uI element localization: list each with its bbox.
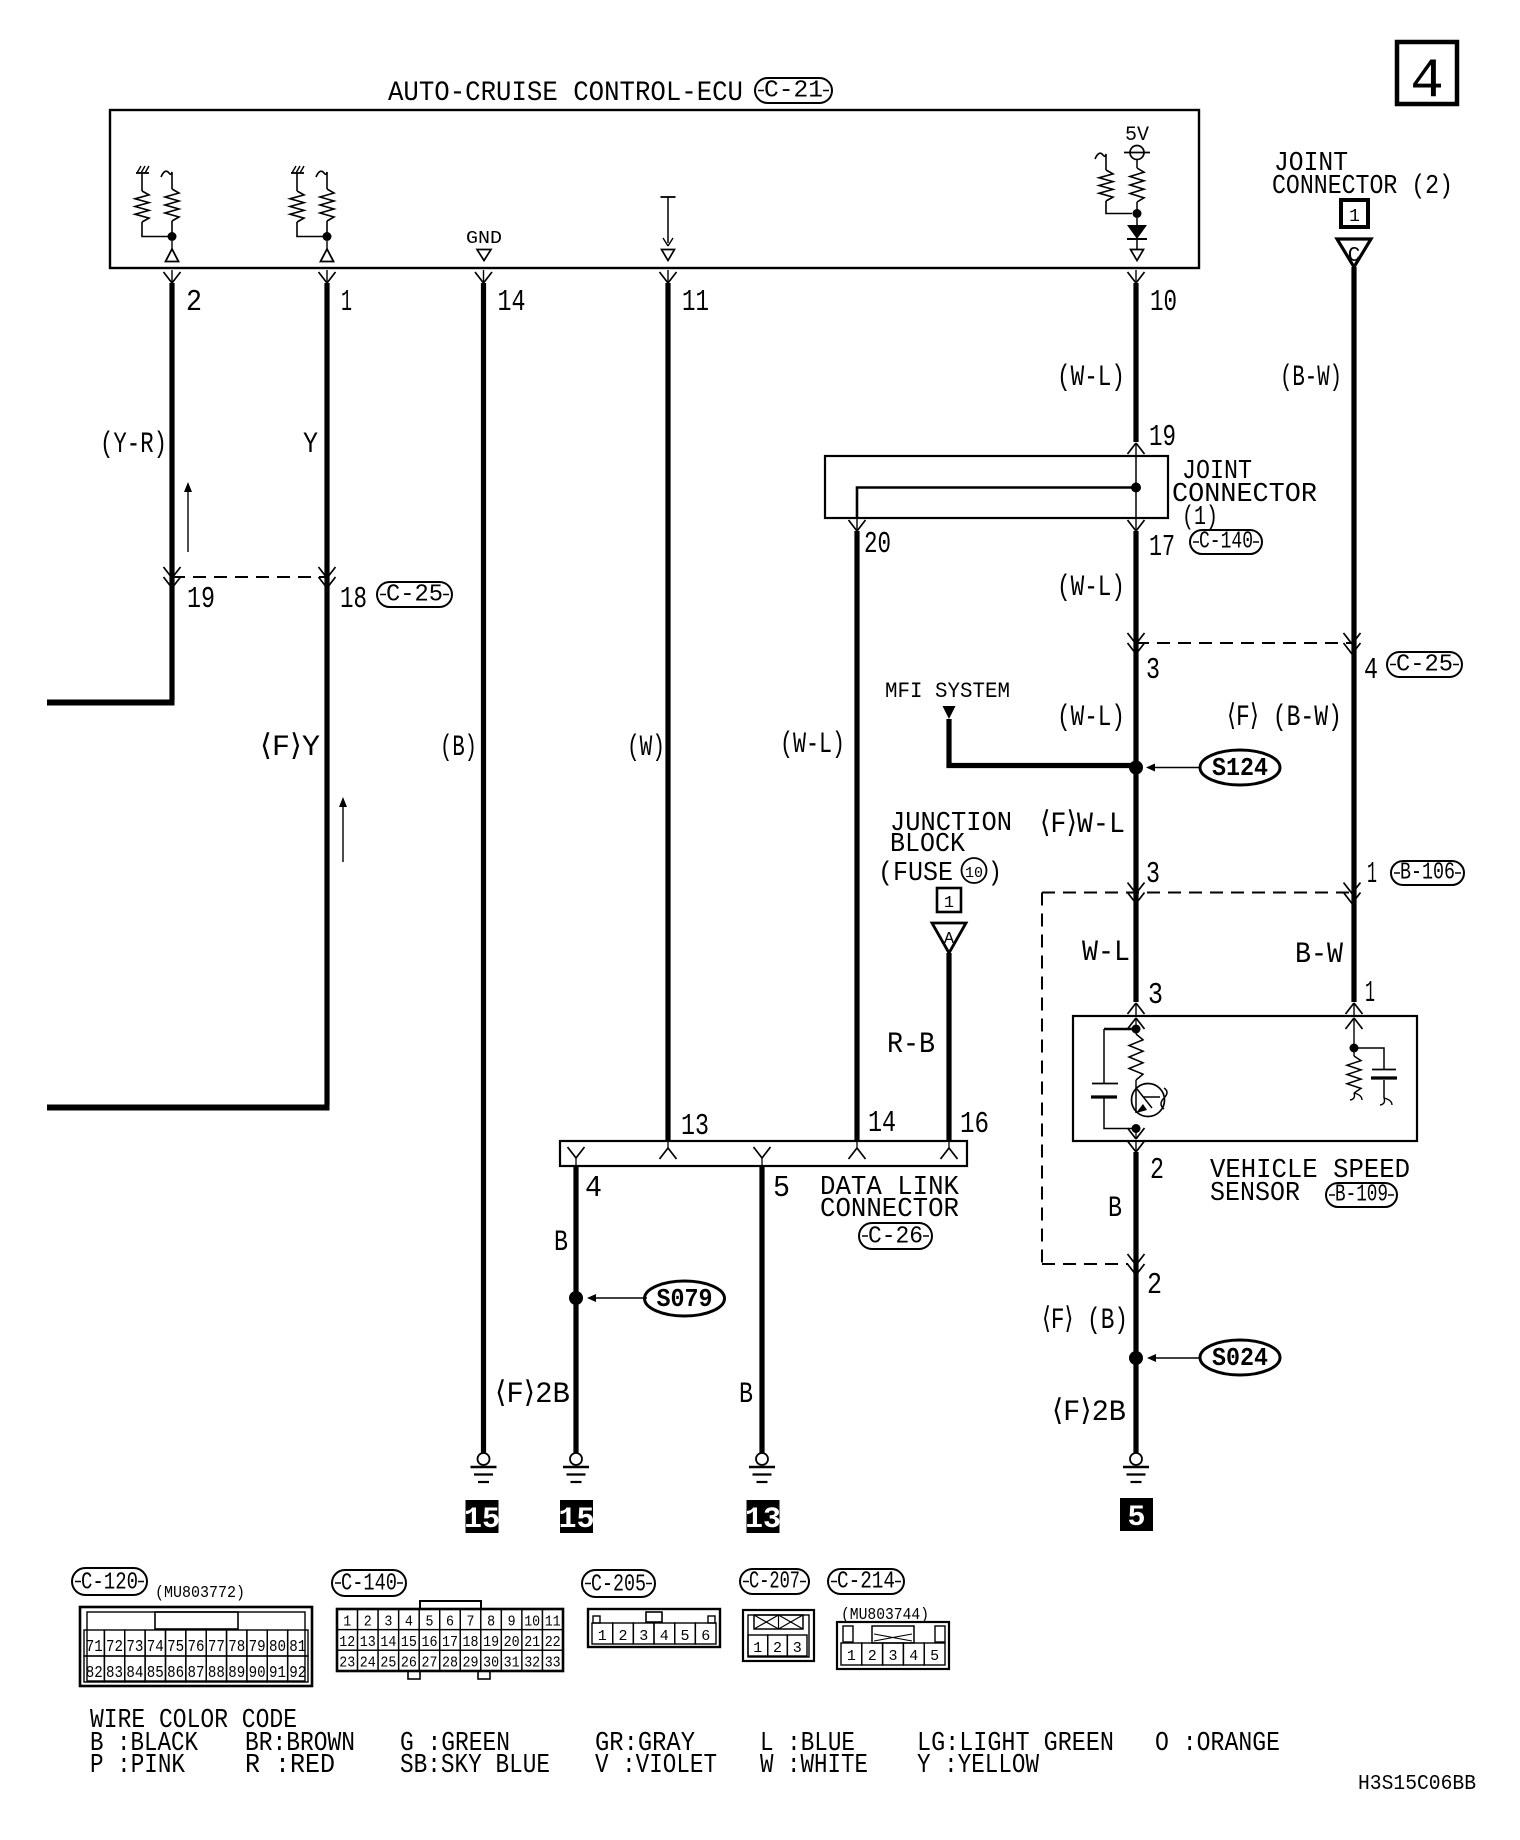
connector label B-106 bbox=[1391, 860, 1464, 887]
svg-text:GND: GND bbox=[466, 229, 502, 249]
svg-text:(W): (W) bbox=[627, 731, 665, 765]
DLC terminal fork pin 13 bbox=[660, 1141, 677, 1159]
joint connector (1) internal wire pin19-pin17 bbox=[1135, 456, 1137, 518]
connector label C-21 bbox=[755, 78, 832, 105]
terminal fork pin 19 into joint connector (1) bbox=[1128, 443, 1145, 456]
connector label C-214 bbox=[828, 1569, 904, 1596]
ECU pin 14 terminal fork bbox=[475, 270, 492, 283]
connector label C-207 bbox=[740, 1569, 809, 1596]
junction dot above diode at pin 10 bbox=[1133, 209, 1142, 218]
svg-text:86: 86 bbox=[167, 1664, 184, 1683]
resistor pair in ECU above pin 1 (left resistor with hatch) bbox=[290, 166, 323, 237]
svg-text:(FUSE: (FUSE bbox=[878, 859, 953, 889]
svg-text:): ) bbox=[988, 859, 1002, 889]
svg-text:Y :YELLOW: Y :YELLOW bbox=[917, 1751, 1040, 1781]
svg-text:3: 3 bbox=[888, 1648, 897, 1665]
svg-text:10: 10 bbox=[965, 865, 983, 882]
sensor internal transistor (speed pickup) bbox=[1132, 1084, 1168, 1117]
svg-text:(W-L): (W-L) bbox=[780, 728, 845, 762]
svg-text:32: 32 bbox=[524, 1655, 540, 1672]
junction block pin box 1 bbox=[937, 888, 961, 913]
DLC terminal fork pin 14 bbox=[849, 1141, 866, 1159]
svg-text:72: 72 bbox=[106, 1638, 123, 1657]
wire W-L from joint connector (1) pin 17 down to vehicle speed sensor bbox=[1133, 531, 1138, 1002]
wire (W-L) from ECU pin 10 to joint connector (1) pin 19 bbox=[1133, 283, 1138, 442]
svg-text:15: 15 bbox=[401, 1634, 417, 1651]
svg-text:(B-W): (B-W) bbox=[1280, 361, 1342, 395]
5V supply symbol inside ECU at pin 10 bbox=[1124, 124, 1150, 160]
svg-text:18: 18 bbox=[340, 582, 367, 617]
JOINT CONNECTOR (2) triangle C bbox=[1337, 239, 1371, 268]
svg-text:17: 17 bbox=[1149, 530, 1175, 565]
double chevron at pin 18 (C-25) bbox=[319, 567, 328, 578]
svg-text:1: 1 bbox=[753, 1640, 762, 1657]
svg-text:77: 77 bbox=[208, 1638, 225, 1657]
svg-text:28: 28 bbox=[442, 1655, 458, 1672]
svg-text:1: 1 bbox=[1349, 207, 1360, 227]
svg-text:1: 1 bbox=[1367, 857, 1377, 892]
JOINT CONNECTOR (2) label bbox=[1272, 149, 1453, 202]
svg-text:C-25: C-25 bbox=[1396, 652, 1453, 679]
svg-text:B-W: B-W bbox=[1295, 938, 1343, 972]
svg-text:C-26: C-26 bbox=[868, 1224, 923, 1251]
svg-text:C-120: C-120 bbox=[81, 1570, 138, 1597]
svg-text:30: 30 bbox=[483, 1655, 499, 1672]
svg-text:83: 83 bbox=[106, 1664, 123, 1683]
svg-text:19: 19 bbox=[1149, 420, 1176, 455]
svg-text:R-B: R-B bbox=[887, 1028, 935, 1062]
svg-text:85: 85 bbox=[147, 1664, 164, 1683]
JOINT CONNECTOR (1) label bbox=[1172, 457, 1317, 533]
sensor internal fork pin 3 bbox=[1128, 1018, 1145, 1029]
ECU pin 10 terminal fork bbox=[1128, 270, 1145, 283]
svg-text:(W-L): (W-L) bbox=[1057, 571, 1125, 605]
svg-text:1: 1 bbox=[847, 1648, 856, 1665]
svg-text:B: B bbox=[739, 1378, 753, 1412]
svg-text:7: 7 bbox=[467, 1614, 475, 1631]
svg-text:26: 26 bbox=[401, 1655, 417, 1672]
svg-text:25: 25 bbox=[380, 1655, 396, 1672]
svg-text:Y: Y bbox=[303, 428, 318, 462]
svg-text:13: 13 bbox=[681, 1109, 709, 1144]
connector C-214 face drawing bbox=[837, 1622, 949, 1669]
DATA LINK CONNECTOR box C-26 bbox=[560, 1141, 967, 1166]
svg-text:V :VIOLET: V :VIOLET bbox=[595, 1751, 717, 1781]
svg-text:15: 15 bbox=[558, 1503, 594, 1537]
svg-text:CONNECTOR (2): CONNECTOR (2) bbox=[1272, 172, 1453, 202]
svg-text:11: 11 bbox=[545, 1614, 561, 1631]
ground reference box 15 (left) bbox=[466, 1500, 499, 1533]
resistor (right) under 5V supply bbox=[1130, 160, 1144, 212]
svg-text:S124: S124 bbox=[1212, 753, 1268, 783]
svg-text:15: 15 bbox=[464, 1503, 500, 1537]
VEHICLE SPEED SENSOR label bbox=[1210, 1156, 1410, 1209]
svg-text:33: 33 bbox=[545, 1655, 561, 1672]
svg-text:24: 24 bbox=[360, 1655, 376, 1672]
connector label C-25 (left) bbox=[377, 582, 452, 609]
flow arrow on (Y-R) wire bbox=[187, 486, 189, 552]
svg-text:(Y-R): (Y-R) bbox=[100, 428, 167, 462]
internal output symbol at ECU pin 11 (T-bar with down arrow) bbox=[661, 197, 676, 261]
splice callout S079 bbox=[587, 1281, 725, 1316]
svg-text:73: 73 bbox=[126, 1638, 143, 1657]
svg-text:2: 2 bbox=[1150, 1153, 1164, 1188]
svg-text:5: 5 bbox=[1127, 1501, 1145, 1535]
harness break dashed line C-25 (pins 3/4) bbox=[1136, 642, 1352, 644]
svg-text:18: 18 bbox=[463, 1634, 479, 1651]
internal terminal triangle at pin 2 bbox=[166, 241, 179, 262]
ground symbol (DLC pin 4) bbox=[570, 1453, 582, 1465]
DLC terminal fork pin 4 bbox=[568, 1147, 585, 1166]
svg-text:10: 10 bbox=[1150, 285, 1177, 320]
DATA LINK CONNECTOR label bbox=[820, 1173, 960, 1225]
svg-text:⟨F⟩2B: ⟨F⟩2B bbox=[495, 1378, 570, 1412]
svg-text:6: 6 bbox=[701, 1628, 710, 1645]
svg-text:75: 75 bbox=[167, 1638, 184, 1657]
DLC terminal fork pin 5 bbox=[754, 1147, 771, 1166]
connector label B-109 bbox=[1326, 1182, 1397, 1209]
double chevron at pin 4 (C-25) bbox=[1344, 633, 1353, 644]
svg-text:⟨F⟩W-L: ⟨F⟩W-L bbox=[1040, 808, 1125, 842]
svg-text:(MU803772): (MU803772) bbox=[155, 1584, 245, 1603]
svg-text:2: 2 bbox=[618, 1628, 627, 1645]
svg-text:9: 9 bbox=[508, 1614, 516, 1631]
svg-text:4: 4 bbox=[1364, 653, 1378, 688]
splice S124 junction dot bbox=[1129, 761, 1143, 775]
svg-text:89: 89 bbox=[228, 1664, 245, 1683]
resistor pair in ECU above pin 1 (right resistor with curl top) bbox=[316, 171, 334, 233]
wire (Y-R) from ECU pin 2 down and left off-page bbox=[169, 283, 174, 700]
connector label C-140 bbox=[1190, 529, 1262, 556]
sensor internal fork pin 2 (exit) bbox=[1128, 1128, 1145, 1139]
svg-text:19: 19 bbox=[483, 1634, 499, 1651]
svg-text:23: 23 bbox=[339, 1655, 355, 1672]
ECU pin 1 terminal fork bbox=[319, 270, 336, 283]
svg-text:79: 79 bbox=[249, 1638, 266, 1657]
connector C-140 face drawing bbox=[337, 1601, 563, 1679]
JOINT CONNECTOR (2) pin box 1 bbox=[1341, 200, 1368, 227]
harness break dashed line C-25 (pins 19/18) bbox=[172, 576, 327, 578]
page number marker 4 (top right) bbox=[1397, 42, 1457, 113]
svg-text:C-207: C-207 bbox=[749, 1569, 800, 1596]
svg-text:22: 22 bbox=[545, 1634, 561, 1651]
svg-text:1: 1 bbox=[341, 285, 352, 320]
svg-text:5V: 5V bbox=[1125, 124, 1149, 147]
svg-text:71: 71 bbox=[86, 1638, 103, 1657]
svg-text:(W-L): (W-L) bbox=[1057, 701, 1125, 735]
svg-text:⟨F⟩2B: ⟨F⟩2B bbox=[1052, 1396, 1126, 1430]
svg-text:C-21: C-21 bbox=[764, 78, 823, 105]
svg-text:⟨F⟩ (B): ⟨F⟩ (B) bbox=[1042, 1304, 1128, 1338]
dashed harness enclosure around vehicle speed sensor wires bbox=[1042, 893, 1128, 1265]
wire (B-W) from joint connector (2) down to vehicle speed sensor bbox=[1351, 267, 1356, 1002]
resistor pair in ECU above pin 2 (right resistor with curl top) bbox=[161, 171, 179, 233]
svg-text:81: 81 bbox=[289, 1638, 306, 1657]
connector C-207 face drawing bbox=[743, 1610, 814, 1661]
resistor (left, with curl top) beside 5V supply bbox=[1095, 153, 1132, 213]
connector label C-205 bbox=[582, 1570, 655, 1599]
svg-text:R :RED: R :RED bbox=[245, 1751, 335, 1781]
svg-text:W-L: W-L bbox=[1082, 936, 1130, 970]
svg-text:4: 4 bbox=[585, 1171, 602, 1206]
svg-text:C-25: C-25 bbox=[386, 582, 443, 609]
double chevron at pin 3 (B-106) bbox=[1128, 883, 1137, 894]
double chevron at pin 19 (C-25) bbox=[164, 567, 173, 578]
connector C-205 face drawing bbox=[588, 1609, 720, 1647]
sensor internal capacitor (right) bbox=[1356, 1048, 1397, 1105]
svg-text:80: 80 bbox=[269, 1638, 286, 1657]
wire Y from ECU pin 1 down and left off-page bbox=[324, 283, 329, 1105]
wire B from sensor pin 2 to B-106 break bbox=[1133, 1152, 1138, 1453]
sensor internal capacitor (left) bbox=[1091, 1029, 1134, 1129]
internal terminal triangle (GND) at pin 14 bbox=[477, 250, 491, 261]
svg-text:1: 1 bbox=[944, 894, 954, 913]
svg-text:(W-L): (W-L) bbox=[1057, 361, 1125, 395]
svg-text:87: 87 bbox=[188, 1664, 205, 1683]
svg-text:B-109: B-109 bbox=[1335, 1182, 1388, 1209]
svg-text:C-214: C-214 bbox=[837, 1569, 895, 1596]
svg-text:90: 90 bbox=[249, 1664, 266, 1683]
svg-text:10: 10 bbox=[524, 1614, 540, 1631]
connector C-120 face drawing bbox=[80, 1607, 312, 1686]
svg-text:2: 2 bbox=[1147, 1268, 1162, 1303]
ECU pin 11 terminal fork bbox=[660, 270, 677, 283]
flow arrow on Y wire bbox=[342, 801, 344, 862]
svg-text:74: 74 bbox=[147, 1638, 164, 1657]
sensor internal resistor bbox=[1129, 1029, 1143, 1084]
svg-text:W :WHITE: W :WHITE bbox=[760, 1751, 868, 1781]
ground reference box 15 (center) bbox=[560, 1500, 593, 1533]
wire (W) from ECU pin 11 to data link connector pin 13 bbox=[665, 283, 670, 1141]
svg-text:78: 78 bbox=[228, 1638, 245, 1657]
svg-text:B: B bbox=[1108, 1192, 1122, 1226]
sensor internal fork pin 1 bbox=[1346, 1018, 1363, 1048]
svg-text:SB:SKY BLUE: SB:SKY BLUE bbox=[400, 1751, 550, 1781]
svg-text:C-205: C-205 bbox=[591, 1572, 646, 1599]
svg-text:8: 8 bbox=[487, 1614, 495, 1631]
svg-text:CONNECTOR: CONNECTOR bbox=[820, 1195, 959, 1225]
ground symbol (DLC pin 5) bbox=[756, 1453, 768, 1465]
zener diode to ECU pin 10 bbox=[1127, 218, 1147, 261]
sensor internal junction dot pin 2 bbox=[1132, 1124, 1141, 1133]
double chevron at pin 2 (harness enclosure exit) bbox=[1128, 1254, 1137, 1265]
wire B from DLC pin 5 to ground bbox=[759, 1166, 764, 1453]
terminal fork pin 17 below joint connector (1) bbox=[1128, 518, 1145, 531]
svg-text:5: 5 bbox=[773, 1171, 790, 1206]
svg-text:3: 3 bbox=[1146, 653, 1160, 688]
terminal fork pin 1 into vehicle speed sensor bbox=[1346, 1003, 1363, 1016]
svg-text:1: 1 bbox=[343, 1614, 351, 1631]
wire (W-L) from joint connector (1) pin 20 to data link connector pin 14 bbox=[854, 531, 859, 1141]
svg-text:⟨F⟩Y: ⟨F⟩Y bbox=[260, 731, 320, 765]
splice callout S024 bbox=[1147, 1340, 1280, 1375]
svg-text:S079: S079 bbox=[657, 1284, 713, 1314]
svg-text:3: 3 bbox=[384, 1614, 392, 1631]
svg-text:C-140: C-140 bbox=[341, 1571, 397, 1598]
svg-text:S024: S024 bbox=[1212, 1343, 1268, 1373]
internal terminal triangle at pin 1 bbox=[321, 241, 334, 262]
wire R-B from junction block to data link connector pin 16 bbox=[946, 953, 951, 1141]
svg-text:2: 2 bbox=[868, 1648, 877, 1665]
svg-text:SENSOR: SENSOR bbox=[1210, 1179, 1300, 1209]
terminal fork pin 2 below vehicle speed sensor bbox=[1128, 1141, 1145, 1152]
svg-text:3: 3 bbox=[1148, 978, 1163, 1013]
ground reference box 5 bbox=[1120, 1498, 1153, 1531]
ECU pin 2 terminal fork bbox=[164, 270, 181, 283]
connector label C-140 (bottom) bbox=[332, 1570, 406, 1598]
svg-text:P :PINK: P :PINK bbox=[90, 1751, 186, 1781]
svg-text:19: 19 bbox=[187, 582, 215, 617]
svg-text:14: 14 bbox=[380, 1634, 396, 1651]
sensor internal junction dot pin 3 bbox=[1132, 1025, 1141, 1034]
svg-text:4: 4 bbox=[1410, 49, 1444, 113]
joint connector (1) bus junction dot bbox=[1131, 483, 1141, 493]
double chevron at pin 3 (C-25) bbox=[1128, 633, 1137, 644]
wire (B) from ECU pin 14 to ground bbox=[481, 283, 486, 1453]
svg-text:20: 20 bbox=[864, 527, 891, 562]
wire color code legend bbox=[90, 1706, 1280, 1781]
svg-text:4: 4 bbox=[660, 1628, 669, 1645]
svg-text:4: 4 bbox=[405, 1614, 413, 1631]
svg-text:16: 16 bbox=[422, 1634, 438, 1651]
svg-text:88: 88 bbox=[208, 1664, 225, 1683]
ground reference box 13 bbox=[747, 1500, 780, 1533]
svg-text:1: 1 bbox=[1365, 976, 1375, 1011]
wire B from DLC pin 4 to ground bbox=[573, 1166, 578, 1453]
svg-text:(B): (B) bbox=[440, 731, 477, 765]
svg-text:B: B bbox=[554, 1226, 568, 1260]
ECU box outline C-21 bbox=[110, 110, 1199, 268]
svg-text:31: 31 bbox=[504, 1655, 520, 1672]
svg-text:5: 5 bbox=[930, 1648, 939, 1665]
junction dot above pin 2 bbox=[168, 232, 177, 241]
svg-text:20: 20 bbox=[504, 1634, 520, 1651]
svg-text:B-106: B-106 bbox=[1400, 860, 1455, 887]
svg-text:84: 84 bbox=[126, 1664, 143, 1683]
splice S024 junction dot bbox=[1129, 1351, 1143, 1365]
svg-text:14: 14 bbox=[868, 1106, 896, 1141]
svg-text:12: 12 bbox=[339, 1634, 355, 1651]
sensor internal junction dot pin 1 bbox=[1350, 1044, 1359, 1053]
svg-text:2: 2 bbox=[773, 1640, 782, 1657]
svg-text:3: 3 bbox=[639, 1628, 648, 1645]
svg-text:76: 76 bbox=[188, 1638, 205, 1657]
connector label C-25 (right) bbox=[1387, 652, 1462, 679]
joint connector (1) internal bus bbox=[857, 488, 1134, 519]
svg-text:3: 3 bbox=[1146, 857, 1160, 892]
svg-text:1: 1 bbox=[598, 1628, 607, 1645]
junction dot above pin 1 bbox=[323, 232, 332, 241]
splice S079 junction dot bbox=[569, 1291, 583, 1305]
svg-text:⟨F⟩ (B-W): ⟨F⟩ (B-W) bbox=[1227, 701, 1342, 735]
svg-text:5: 5 bbox=[680, 1628, 689, 1645]
double chevron at pin 1 (B-106) bbox=[1344, 883, 1353, 894]
svg-text:A: A bbox=[944, 930, 955, 949]
VEHICLE SPEED SENSOR box B-109 bbox=[1073, 1016, 1417, 1141]
sensor internal resistor (right) bbox=[1347, 1048, 1362, 1100]
svg-text:29: 29 bbox=[463, 1655, 479, 1672]
DLC terminal fork pin 16 bbox=[941, 1141, 958, 1159]
svg-text:16: 16 bbox=[960, 1107, 989, 1142]
svg-text:4: 4 bbox=[909, 1648, 918, 1665]
svg-text:82: 82 bbox=[86, 1664, 103, 1683]
svg-text:13: 13 bbox=[745, 1503, 781, 1537]
svg-text:C: C bbox=[1348, 245, 1361, 268]
svg-text:2: 2 bbox=[364, 1614, 372, 1631]
wire from MFI SYSTEM to S124 splice bbox=[949, 719, 1134, 766]
svg-text:H3S15C06BB: H3S15C06BB bbox=[1358, 1773, 1476, 1796]
svg-text:6: 6 bbox=[446, 1614, 454, 1631]
JOINT CONNECTOR (1) box bbox=[825, 456, 1168, 518]
svg-text:11: 11 bbox=[682, 285, 709, 320]
svg-text:14: 14 bbox=[498, 285, 526, 320]
svg-text:2: 2 bbox=[186, 285, 202, 320]
svg-text:91: 91 bbox=[269, 1664, 286, 1683]
svg-text:BLOCK: BLOCK bbox=[890, 830, 966, 860]
harness break dashed line B-106 bbox=[1042, 892, 1352, 894]
terminal fork pin 20 below joint connector (1) bbox=[849, 518, 866, 531]
svg-text:17: 17 bbox=[442, 1634, 458, 1651]
resistor pair in ECU above pin 2 (left resistor with hatch) bbox=[135, 166, 168, 237]
junction block triangle A (fuse feed) bbox=[932, 923, 966, 953]
svg-text:5: 5 bbox=[426, 1614, 434, 1631]
svg-text:O :ORANGE: O :ORANGE bbox=[1155, 1729, 1280, 1759]
ground symbol (ECU pin 14 wire) bbox=[478, 1453, 490, 1465]
svg-text:MFI SYSTEM: MFI SYSTEM bbox=[885, 679, 1010, 704]
splice callout S124 bbox=[1146, 750, 1280, 785]
ground symbol (right) bbox=[1130, 1453, 1142, 1465]
MFI SYSTEM arrow triangle bbox=[943, 706, 956, 719]
svg-text:C-140: C-140 bbox=[1199, 529, 1253, 556]
svg-text:27: 27 bbox=[422, 1655, 438, 1672]
svg-text:21: 21 bbox=[524, 1634, 540, 1651]
svg-text:3: 3 bbox=[793, 1640, 802, 1657]
terminal fork pin 3 into vehicle speed sensor bbox=[1128, 1003, 1145, 1016]
svg-text:92: 92 bbox=[289, 1664, 306, 1683]
svg-text:AUTO-CRUISE CONTROL-ECU: AUTO-CRUISE CONTROL-ECU bbox=[388, 78, 743, 109]
JUNCTION BLOCK label bbox=[878, 809, 1012, 889]
connector label C-120 bbox=[72, 1568, 147, 1597]
connector label C-26 bbox=[859, 1223, 932, 1251]
svg-text:13: 13 bbox=[360, 1634, 376, 1651]
